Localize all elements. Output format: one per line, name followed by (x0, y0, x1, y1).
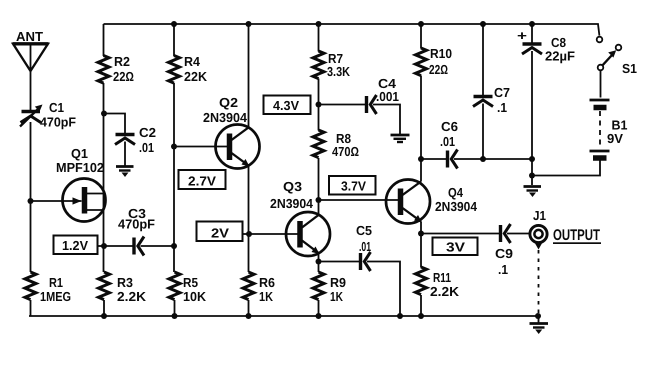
resistor R2 22ohm (98, 54, 134, 84)
svg-text:9V: 9V (607, 131, 623, 146)
node C8 column / ground wire (529, 156, 535, 162)
wire Q2 emitter column (248, 166, 250, 273)
resistor R9 1K (313, 272, 346, 304)
node Q2 base (171, 144, 177, 150)
svg-text:R9: R9 (330, 275, 346, 290)
wire Q3 emitter (318, 253, 320, 262)
svg-text:Q4: Q4 (448, 185, 464, 200)
svg-text:.01: .01 (440, 134, 455, 149)
capacitor C1 470pF (variable) (20, 100, 76, 130)
wire source node to C3 (104, 245, 133, 247)
wire Q4 emitter (420, 222, 422, 235)
node gate of Q1 (28, 198, 34, 204)
svg-text:Q3: Q3 (283, 179, 302, 194)
node C7 bottom (480, 156, 486, 162)
svg-text:22Ω: 22Ω (113, 69, 134, 84)
wire Q2 base (174, 146, 230, 148)
wire rail to R2 (103, 24, 105, 56)
resistor R1 1MEG (25, 272, 71, 304)
svg-text:R11: R11 (433, 270, 451, 285)
wire Q3 collector (318, 200, 320, 215)
label 2.7V (boxed) (179, 170, 226, 189)
wire rail to C7 (482, 24, 484, 95)
ground (C4) (391, 135, 410, 142)
wire 2V box to Q3 base node (243, 233, 250, 235)
ground (J1) (530, 316, 549, 334)
transistor Q1 MPF102 (JFET) (31, 146, 106, 222)
wire R1 to ground rail (30, 300, 32, 316)
ground (C2) (116, 167, 134, 178)
node rail/C8 (529, 21, 535, 27)
label 2V (boxed) (197, 222, 243, 242)
ground (supply) (524, 176, 542, 197)
label OUTPUT (553, 227, 601, 244)
wire to C2 (104, 114, 125, 134)
wire Q4 emitter to C9 (421, 233, 499, 235)
node Q1 source / C3 (101, 243, 107, 249)
wire C5 to ground rail (367, 262, 400, 317)
svg-text:R1: R1 (49, 275, 63, 290)
svg-text:2.2K: 2.2K (430, 284, 460, 299)
svg-text:470pF: 470pF (118, 217, 155, 232)
wire R4 to R5 column (173, 83, 175, 272)
label 4.3V (boxed) (264, 96, 311, 115)
svg-text:C7: C7 (494, 85, 510, 100)
wire rail to R10 (420, 24, 422, 49)
svg-text:C5: C5 (356, 223, 372, 238)
wire Q3 base (249, 233, 300, 235)
switch S1 (597, 37, 637, 76)
svg-text:+: + (517, 28, 528, 43)
wire battery return (532, 161, 600, 176)
svg-text:3.7V: 3.7V (341, 179, 366, 194)
svg-text:.1: .1 (497, 100, 507, 115)
capacitor C2 .01 (115, 125, 156, 155)
wire Q3 emitter to C5 (319, 261, 360, 263)
svg-text:.01: .01 (359, 239, 371, 254)
node R3/ground rail (101, 313, 107, 319)
svg-text:1MEG: 1MEG (40, 289, 71, 304)
svg-text:2.2K: 2.2K (117, 289, 147, 304)
wire S1 to battery (600, 71, 602, 98)
svg-text:470pF: 470pF (40, 115, 76, 130)
capacitor C7 .1 (473, 85, 510, 115)
wire C6 left (421, 158, 446, 160)
svg-text:22Ω: 22Ω (429, 62, 448, 77)
wire Q2 collector to rail (248, 24, 250, 128)
svg-text:C9: C9 (495, 246, 513, 261)
capacitor C6 .01 (440, 119, 458, 169)
svg-text:R5: R5 (183, 275, 198, 290)
transistor Q2 2N3904 (203, 95, 260, 169)
wire R5 to ground rail (174, 300, 176, 316)
svg-text:R2: R2 (114, 54, 130, 69)
node R10/C6/Q4 collector (418, 156, 424, 162)
svg-text:MPF102: MPF102 (56, 160, 104, 175)
resistor R6 1K (243, 272, 275, 304)
antenna ANT (13, 29, 49, 71)
wire rail to R4 (173, 24, 175, 56)
wire C1 to gate node (30, 122, 32, 272)
resistor R8 470ohm (313, 130, 359, 159)
svg-text:1.2V: 1.2V (62, 238, 88, 253)
supply rail (top) (104, 24, 600, 36)
wire C7 to C6 node (482, 104, 484, 160)
svg-text:ANT: ANT (16, 29, 43, 44)
svg-text:.01: .01 (139, 140, 154, 155)
node rail/R10 (418, 21, 424, 27)
wire R8 to Q3 collector node (318, 158, 320, 200)
node R11/ground rail (418, 313, 424, 319)
svg-text:Q1: Q1 (71, 146, 88, 161)
svg-text:.001: .001 (376, 89, 399, 104)
wire C3 to base column (141, 245, 175, 247)
wire antenna lead (30, 44, 32, 110)
resistor R4 22K (169, 54, 208, 84)
wire R3 to ground rail (103, 300, 105, 316)
svg-text:R10: R10 (430, 46, 452, 61)
label 1.2V (boxed) (54, 236, 98, 255)
wire Q4 base (319, 199, 401, 201)
capacitor C3 470pF (118, 206, 155, 256)
svg-text:OUTPUT: OUTPUT (553, 227, 600, 244)
wire C2 to ground (124, 142, 126, 167)
svg-text:J1: J1 (533, 208, 546, 223)
svg-text:S1: S1 (622, 61, 637, 76)
wire C6 to C7/C8 columns (454, 158, 532, 160)
label 3V (boxed) (433, 238, 478, 256)
node battery return / ground (529, 173, 535, 179)
node ground rail end (535, 313, 541, 319)
svg-text:2.7V: 2.7V (188, 174, 216, 189)
node R2/C2/drain (101, 111, 107, 117)
resistor R11 2.2K (416, 234, 460, 299)
wire C4 to ground (373, 105, 400, 135)
label 3.7V (boxed) (329, 176, 376, 195)
svg-text:22µF: 22µF (545, 49, 575, 64)
jack J1 (530, 208, 547, 250)
resistor R3 2.2K (99, 272, 147, 304)
wire rail to C8 (531, 24, 533, 43)
wire R2 to drain column (103, 83, 105, 272)
svg-text:2N3904: 2N3904 (435, 199, 478, 214)
svg-text:3V: 3V (446, 240, 465, 255)
transistor Q3 2N3904 (270, 179, 330, 256)
svg-text:C6: C6 (441, 119, 458, 134)
capacitor C9 .1 (495, 224, 513, 277)
svg-text:R4: R4 (184, 54, 201, 69)
capacitor C8 22uF (517, 28, 575, 64)
node C5 drop/ground rail (397, 313, 403, 319)
svg-text:3.3K: 3.3K (327, 64, 351, 79)
node rail/Q2 collector (246, 21, 252, 27)
node Q3 collector / Q4 base (316, 197, 322, 203)
node rail/C7 (480, 21, 486, 27)
node R5/ground rail (172, 313, 178, 319)
wire node to C4 (319, 104, 366, 106)
wire R6 to ground rail (248, 300, 250, 316)
svg-text:C2: C2 (139, 125, 156, 140)
svg-text:R6: R6 (259, 275, 275, 290)
svg-text:470Ω: 470Ω (332, 144, 359, 159)
wire R9 stub top (318, 262, 320, 273)
node Q3 base / Q2 emitter (246, 231, 252, 237)
svg-text:.1: .1 (498, 262, 508, 277)
battery B1 9V (590, 100, 628, 158)
wire 1.2V box to source node (98, 245, 105, 247)
node R9/ground rail (316, 313, 322, 319)
node rail/R4 (171, 21, 177, 27)
svg-text:2V: 2V (211, 226, 229, 241)
wire R9 to ground rail (318, 300, 320, 316)
svg-text:10K: 10K (183, 289, 207, 304)
node R7/R8/C4 (316, 102, 322, 108)
node Q3 emitter / C5 / R9 (316, 259, 322, 265)
ground rail (bottom) (29, 315, 538, 317)
wire R10 to Q4 collector (420, 76, 422, 182)
svg-text:2N3904: 2N3904 (203, 110, 248, 125)
wire rail to R7 (318, 24, 320, 52)
node rail/R7 (316, 21, 322, 27)
resistor R7 3.3K (313, 51, 351, 79)
transistor Q4 2N3904 (386, 180, 478, 224)
svg-text:1K: 1K (330, 289, 343, 304)
node Q4 emitter / R11 / C9 (418, 231, 424, 237)
node C3/base column (171, 243, 177, 249)
capacitor C5 .01 (356, 223, 372, 271)
wire C8 to ground node (531, 51, 533, 176)
svg-text:R3: R3 (117, 275, 133, 290)
svg-text:4.3V: 4.3V (273, 98, 299, 113)
resistor R5 10K (169, 272, 207, 304)
svg-text:1K: 1K (259, 289, 274, 304)
resistor R10 22ohm (416, 46, 453, 77)
wire R7 to node (318, 79, 320, 131)
wire R11 to ground rail (420, 295, 422, 316)
capacitor C4 .001 (367, 76, 400, 114)
node R6/ground rail (246, 313, 252, 319)
svg-text:Q2: Q2 (219, 95, 238, 110)
svg-text:C1: C1 (49, 100, 64, 115)
wire J1 sleeve to ground (538, 250, 540, 314)
wire C9 to J1 (507, 233, 530, 235)
svg-text:2N3904: 2N3904 (270, 196, 314, 211)
svg-text:22K: 22K (184, 69, 208, 84)
